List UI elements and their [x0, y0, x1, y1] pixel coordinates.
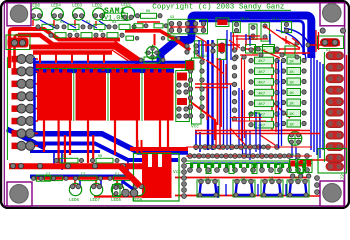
heatsink ticks: [39, 66, 167, 74]
wire blue top-left diagonals: [40, 20, 110, 28]
connector J2 pads: [326, 52, 344, 162]
LED LED2: [92, 5, 105, 21]
wire red center-bottom links: [230, 118, 266, 122]
pads TR row2: [241, 41, 310, 59]
svg-text:VR1: VR1: [290, 154, 296, 158]
wire red top left stubs: [33, 20, 96, 26]
IC U2 bar: [176, 71, 190, 122]
svg-text:LED3: LED3: [72, 5, 83, 9]
resistor bank RN1: [249, 47, 279, 129]
svg-text:Q4: Q4: [295, 177, 299, 181]
transistor Q4 pad field: [144, 73, 174, 121]
svg-text:R6: R6: [99, 30, 103, 34]
connector J1 pads: [17, 55, 35, 151]
wire red thick band B: [18, 35, 118, 45]
capacitor C17: [126, 36, 139, 40]
relay K1 outline: [318, 149, 347, 174]
mounting hole BR: [320, 181, 344, 206]
svg-text:LED7: LED7: [90, 199, 101, 203]
wire blue band left low: [30, 150, 100, 153]
wire red right diag: [270, 60, 290, 132]
wire blue bottom diagonals: [246, 130, 296, 160]
wire red U6 feeds: [138, 140, 142, 153]
svg-text:LED5: LED5: [111, 199, 122, 203]
wire blue bottom row links: [190, 162, 310, 164]
svg-text:LED2: LED2: [92, 5, 103, 9]
wire red stubs above bottom leds: [75, 180, 138, 186]
capacitor C11 vertical red: [217, 39, 226, 59]
wire red band center low: [130, 147, 188, 151]
pads U6 bottom left: [122, 189, 138, 197]
svg-text:LED4: LED4: [51, 5, 62, 9]
capacitor C9: [154, 24, 168, 28]
capacitor C13: [290, 160, 297, 179]
wire blue stubs above bottom leds: [80, 180, 143, 186]
wire blue left diagonal lower: [7, 129, 45, 148]
svg-text:R1: R1: [60, 21, 64, 25]
connector J2 bottom row: [326, 163, 344, 171]
wire red diag bank bottom: [230, 128, 248, 148]
svg-text:U2: U2: [181, 69, 185, 73]
wire red extra top right: [206, 30, 319, 145]
svg-text:Q3: Q3: [269, 177, 273, 181]
svg-text:C1: C1: [115, 173, 119, 177]
svg-text:C11: C11: [272, 18, 280, 22]
svg-text:Q2: Q2: [241, 177, 245, 181]
svg-text:C3: C3: [81, 173, 85, 177]
wire red thick band D: [33, 50, 112, 55]
wire red top band 1: [10, 29, 25, 68]
svg-text:Vcc: Vcc: [191, 124, 199, 130]
svg-text:R5: R5: [73, 30, 77, 34]
wire red center low band2: [175, 177, 310, 179]
pads wedge bottoms: [198, 193, 308, 197]
resistor bank values: [258, 50, 294, 129]
svg-text:1K: 1K: [289, 103, 294, 107]
wire red bank verticals: [242, 58, 245, 140]
svg-text:R2: R2: [86, 21, 90, 25]
transistor T4 wedge: [287, 179, 309, 197]
wire red J1 row stubs: [18, 59, 38, 146]
svg-text:C10: C10: [196, 55, 202, 59]
wire blue band under blocks 1: [32, 134, 188, 152]
LED LED7: [90, 183, 103, 203]
transistor Q3 pad field: [110, 73, 140, 121]
svg-text:LED6: LED6: [69, 199, 80, 203]
wire red verticals from blocks: [44, 120, 168, 163]
ref labels scatter: [46, 10, 330, 181]
wire blue bus inner: [199, 21, 304, 55]
wire blue thin verticals center: [220, 58, 243, 155]
svg-text:U3: U3: [170, 16, 174, 20]
svg-text:R3: R3: [112, 21, 116, 25]
pads bottom right col: [315, 176, 320, 195]
wire red led link bottom: [94, 195, 142, 197]
svg-text:C5: C5: [240, 18, 244, 22]
pad row top1: [36, 25, 136, 29]
wire blue center-bottom verticals: [256, 112, 260, 154]
wire blue extra top: [199, 34, 286, 198]
svg-text:Vcc: Vcc: [173, 169, 181, 175]
wire red center low band3: [175, 195, 310, 197]
LED LED4: [51, 5, 64, 21]
svg-text:Q1: Q1: [205, 177, 209, 181]
wire red center diagonal: [188, 100, 215, 140]
resistor R9: [135, 13, 162, 18]
resistor row top1: [42, 24, 130, 29]
capacitor C5 vertical: [249, 24, 257, 39]
svg-text:1K: 1K: [289, 71, 294, 75]
capacitor C8: [134, 24, 148, 28]
wire red diag to crystal: [113, 27, 205, 63]
svg-text:4K7: 4K7: [258, 124, 266, 128]
resistor R15: [246, 45, 256, 54]
wire red top center band: [125, 31, 190, 50]
trimmer VR1: [288, 132, 302, 146]
connector J1 outline: [6, 57, 8, 160]
pads on red band bottom-left: [10, 163, 125, 168]
wire red band bottom-left 2: [35, 177, 135, 180]
svg-text:J2: J2: [340, 174, 346, 180]
resistor verticals bottom center: [206, 165, 303, 174]
wire red top small traces: [137, 22, 340, 53]
transistor T1 wedge: [197, 179, 219, 197]
svg-text:4K7: 4K7: [258, 82, 266, 86]
IC U4: [188, 58, 204, 124]
wire blue right curves: [276, 28, 312, 60]
transistor outlines green: [36, 68, 174, 121]
connector J1 red pads: [12, 56, 19, 149]
bottom right caps: [290, 160, 347, 195]
wire red thick band C: [29, 45, 115, 50]
capacitor C16 vertical: [113, 185, 121, 197]
IC U3 top: [168, 19, 208, 34]
LED LED1: [121, 4, 135, 21]
svg-text:1K: 1K: [289, 92, 294, 96]
capacitor C15: [306, 160, 313, 179]
pad row header1: [194, 145, 280, 150]
capacitor C7: [281, 22, 291, 33]
transistor T3 wedge: [261, 179, 283, 197]
wire blue band above blocks: [33, 69, 174, 74]
svg-text:4K7: 4K7: [258, 60, 266, 64]
wire blue verticals center pair: [208, 40, 213, 150]
wire red thick band A: [13, 29, 121, 40]
capacitor C20: [250, 113, 260, 121]
svg-text:LED9: LED9: [132, 199, 143, 203]
transistor Q2 pad field: [76, 73, 107, 121]
svg-text:R4: R4: [47, 30, 51, 34]
pad column center: [232, 48, 237, 121]
LED LED9: [132, 183, 145, 203]
capacitor C4 red filled: [216, 18, 229, 27]
wire red scatter mid: [196, 36, 300, 60]
LED LED3: [72, 5, 85, 21]
wire blue stub bl1: [54, 150, 62, 170]
wire red TR verticals: [233, 33, 237, 50]
capacitor C18: [161, 36, 180, 40]
wire red TR diagonal: [264, 26, 290, 45]
label underline: [245, 9, 291, 11]
wire blue crystal link: [33, 30, 231, 62]
resistor row top2: [55, 33, 118, 38]
label V1.00 box: [103, 13, 128, 20]
connector J2 outline: [323, 52, 325, 162]
resistor row bl1: [54, 158, 119, 163]
regulator U6 body: [142, 152, 172, 198]
svg-text:4K7: 4K7: [258, 103, 266, 107]
svg-text:R7: R7: [62, 155, 66, 159]
wire blue bank verticals: [279, 60, 282, 148]
wire red block feeds top: [40, 52, 104, 63]
pads header extra: [193, 145, 287, 158]
mounting hole TR: [320, 3, 345, 26]
pad row top2: [49, 33, 124, 37]
svg-text:R8: R8: [98, 155, 102, 159]
mounting hole BL: [7, 182, 32, 206]
IC U2 pads: [177, 83, 188, 118]
capacitor C19 red: [186, 61, 195, 71]
LED LED5: [111, 183, 124, 203]
svg-text:1K: 1K: [289, 124, 294, 128]
svg-text:C2: C2: [46, 173, 50, 177]
svg-text:1K: 1K: [289, 82, 294, 86]
wire red center-col verticals: [218, 58, 222, 127]
transistor Q1 pad field: [37, 73, 72, 121]
resistor R16: [263, 45, 275, 54]
heatsink tick pads: [39, 67, 165, 71]
svg-text:D1: D1: [326, 49, 330, 53]
svg-text:4K7: 4K7: [258, 71, 266, 75]
transistor T2 wedge: [233, 179, 255, 197]
svg-text:1K: 1K: [289, 113, 294, 117]
wire red top band 2: [15, 35, 25, 72]
resistor R18 under crystal: [139, 57, 165, 63]
wire red right edge vertical: [346, 55, 348, 170]
resistor row bl2: [39, 176, 135, 181]
pad row header3: [188, 168, 310, 173]
capacitor C10 vertical: [194, 41, 201, 58]
wire blue left block vertical: [33, 58, 36, 132]
resistor R17: [285, 46, 295, 55]
wire red mid horizontals: [195, 84, 232, 88]
wire blue main bus top: [161, 16, 312, 67]
wire red band above blocks: [33, 64, 188, 68]
capacitor C6 vertical: [261, 22, 269, 41]
wire red bottom right: [300, 160, 344, 196]
capacitor C14: [298, 160, 305, 179]
crystal Y1: [145, 45, 161, 61]
regulator U6 outline: [134, 154, 180, 202]
regulator U6 slots: [148, 154, 152, 167]
mounting hole TL: [7, 3, 31, 26]
wire blue band under blocks 2: [28, 144, 178, 161]
LED LED6: [69, 183, 82, 203]
wire blue stub U6 left: [122, 181, 133, 189]
pad row header2: [188, 154, 310, 159]
wire red band elbow to U6: [120, 166, 140, 186]
diode D3 left: [6, 35, 30, 50]
pads top right misc: [185, 28, 346, 59]
resistor bank RN2: [281, 57, 306, 127]
resistor R14 small: [233, 22, 241, 33]
capacitor C12 bottom left: [36, 175, 50, 181]
wire blue right bundle: [311, 56, 323, 158]
wire blue mid verticals low: [128, 130, 200, 172]
diode D1: [318, 36, 344, 49]
wire red center verticals: [112, 48, 226, 150]
pads C12: [31, 176, 55, 180]
pad column U6 right: [182, 158, 187, 199]
svg-text:R9: R9: [146, 10, 150, 14]
svg-text:1K: 1K: [289, 61, 294, 65]
wire red header links: [186, 131, 320, 157]
wire blue band mid-bottom: [30, 175, 133, 179]
resistor array ticks: [186, 161, 312, 168]
svg-text:U4: U4: [203, 55, 207, 59]
svg-text:4K7: 4K7: [258, 92, 266, 96]
LED LED8: [30, 5, 43, 21]
wire red band bottom-left: [9, 163, 142, 169]
